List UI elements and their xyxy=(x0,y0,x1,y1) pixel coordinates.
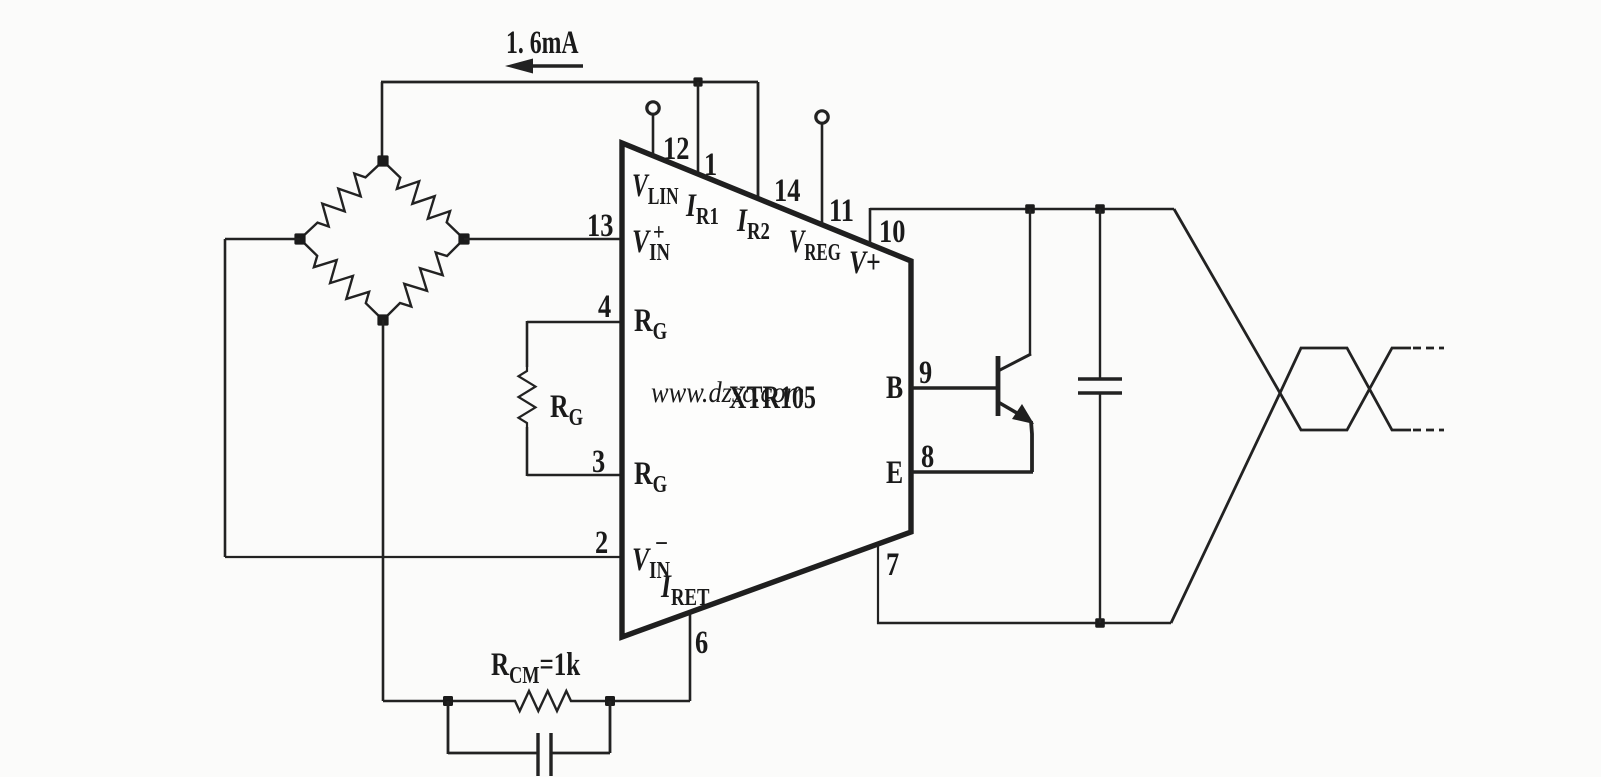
wire bypass right vertical xyxy=(609,701,612,753)
wire pin4 stub xyxy=(527,321,620,324)
wire twisted pair lower xyxy=(1171,348,1411,623)
svg-text:14: 14 xyxy=(774,172,800,208)
node bridge bottom xyxy=(377,314,388,325)
svg-text:12: 12 xyxy=(663,130,689,166)
wire capacitor top lead xyxy=(1099,209,1101,379)
wire pin7 stub xyxy=(877,544,879,624)
svg-text:1: 1 xyxy=(704,146,717,182)
wire outer left vertical xyxy=(224,239,227,557)
svg-text:−: − xyxy=(655,529,668,558)
wire pin14 drop xyxy=(757,82,760,200)
op-amp U1 XTR105 body xyxy=(622,143,911,637)
wire top feedback rail xyxy=(381,81,758,84)
label VLIN xyxy=(632,167,679,209)
node RCM right xyxy=(605,696,615,706)
node bridge top xyxy=(377,155,388,166)
wire pin3 stub xyxy=(527,474,620,477)
pin number 14 xyxy=(774,172,800,208)
wire RG loop upper xyxy=(526,321,529,367)
transistor Q1 base bar xyxy=(996,356,1001,416)
wire capacitor bottom lead xyxy=(1099,393,1101,623)
label VIN+ pin13 xyxy=(632,224,670,265)
current label 1.6mA xyxy=(506,24,579,61)
pin number 3 xyxy=(592,443,605,479)
svg-text:E: E xyxy=(886,455,903,491)
label RG pin4 xyxy=(634,303,667,344)
pin number 4 xyxy=(598,288,611,324)
svg-text:B: B xyxy=(886,370,903,406)
svg-text:3: 3 xyxy=(592,443,605,479)
wire RCM rail right xyxy=(573,700,690,703)
label RCM value xyxy=(491,647,581,689)
capacitor C1 plates xyxy=(1078,377,1122,381)
wire RCM rail left xyxy=(383,700,513,703)
wire pin1 drop xyxy=(697,82,700,176)
label V+ xyxy=(849,245,881,281)
svg-text:6: 6 xyxy=(695,624,708,660)
wire bypass bottom right xyxy=(551,752,610,755)
current direction arrow xyxy=(530,64,583,67)
transistor Q1 emitter arrowhead xyxy=(1012,404,1034,424)
svg-text:7: 7 xyxy=(886,546,899,582)
label E xyxy=(886,455,903,491)
wire pin2 horizontal xyxy=(225,556,620,558)
label RG pin3 xyxy=(634,456,667,497)
resistor RG xyxy=(519,367,536,427)
node RCM left xyxy=(443,696,453,706)
wire pin12 stub xyxy=(652,114,655,157)
pin number 7 xyxy=(886,546,899,582)
pin number 13 xyxy=(587,207,613,243)
node bridge left xyxy=(294,233,305,244)
wire RG loop lower xyxy=(526,427,529,476)
terminal pin12 xyxy=(647,102,659,114)
label VIN- pin2 xyxy=(632,542,670,583)
wire emitter vertical xyxy=(1031,421,1032,472)
wire pin6 stub xyxy=(689,613,692,701)
pin number 9 xyxy=(919,354,932,390)
resistor bridge top-right xyxy=(383,161,464,239)
wire bypass left vertical xyxy=(447,701,450,754)
svg-text:www.dzsc.com: www.dzsc.com xyxy=(651,377,804,410)
transistor Q1 emitter diagonal xyxy=(998,402,1022,416)
pin number 11 xyxy=(829,192,854,228)
wire twisted pair upper xyxy=(1174,209,1411,430)
pin number 6 xyxy=(695,624,708,660)
svg-text:9: 9 xyxy=(919,354,932,390)
node collector junction xyxy=(1025,204,1035,214)
label XTR105 xyxy=(729,379,816,416)
svg-text:10: 10 xyxy=(879,213,905,249)
terminal pin11 xyxy=(816,111,828,123)
wire pin8 emitter wire xyxy=(911,470,1033,473)
node junction feedback-to-pin1 xyxy=(693,77,702,86)
label VREG xyxy=(789,224,841,266)
node capacitor bottom junction xyxy=(1095,618,1105,628)
wire pin10 stub xyxy=(869,208,872,245)
wire bridge bottom drop xyxy=(382,320,385,701)
svg-text:13: 13 xyxy=(587,207,613,243)
wire collector vertical xyxy=(1029,209,1031,355)
wire bypass bottom left xyxy=(448,752,537,755)
resistor bridge bottom-left xyxy=(300,239,383,320)
resistor RCM xyxy=(513,691,573,711)
svg-text:V+: V+ xyxy=(849,245,881,281)
svg-text:11: 11 xyxy=(829,192,854,228)
capacitor bypass plates xyxy=(536,733,539,776)
label RG resistor xyxy=(550,389,583,430)
wire bridge-left to outer rail xyxy=(225,238,300,241)
svg-text:4: 4 xyxy=(598,288,611,324)
pin number 8 xyxy=(921,438,934,474)
pin number 12 xyxy=(663,130,689,166)
wire top right rail xyxy=(870,208,1174,211)
wire left drop from feedback rail to bridge top xyxy=(381,82,384,162)
svg-text:+: + xyxy=(653,218,665,245)
node capacitor top junction xyxy=(1095,204,1105,214)
label IR1 xyxy=(685,188,719,229)
transistor Q1 collector diagonal xyxy=(998,354,1031,371)
pin number 2 xyxy=(595,524,608,560)
node bridge right xyxy=(458,233,469,244)
svg-text:1. 6mA: 1. 6mA xyxy=(506,24,579,61)
label IRET xyxy=(660,569,710,610)
watermark xyxy=(651,377,804,410)
pin number 10 xyxy=(879,213,905,249)
resistor bridge bottom-right xyxy=(383,239,464,320)
pin number 1 xyxy=(704,146,717,182)
svg-text:2: 2 xyxy=(595,524,608,560)
wire pin11 stub xyxy=(821,123,824,225)
svg-text:8: 8 xyxy=(921,438,934,474)
label B xyxy=(886,370,903,406)
wire bridge-right to pin13 xyxy=(464,238,620,241)
wire bottom right rail xyxy=(877,622,1171,625)
label IR2 xyxy=(736,203,770,244)
resistor bridge top-left xyxy=(300,161,383,239)
wire pin9 base wire xyxy=(911,386,997,389)
